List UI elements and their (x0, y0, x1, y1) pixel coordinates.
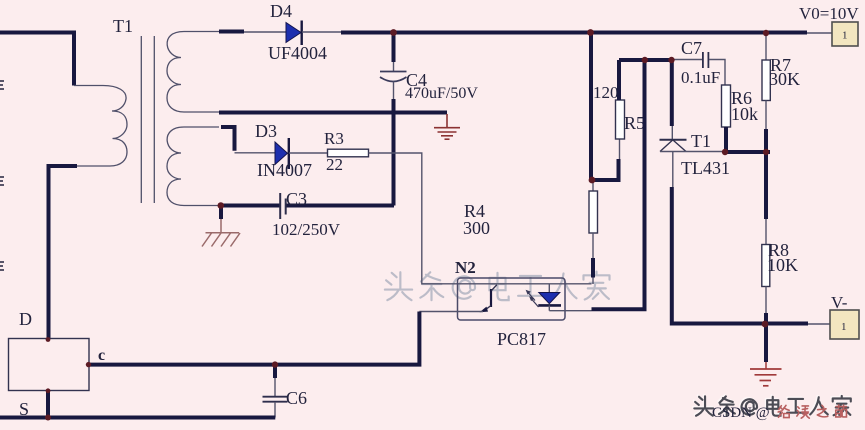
wire: S pin to bottom rail (46, 391, 50, 420)
capacitor C4 (380, 33, 478, 103)
node: rail junction R5/R4 column (587, 29, 594, 36)
svg-text:UF4004: UF4004 (268, 43, 327, 63)
node: S pin box (46, 388, 51, 393)
edge partial label top-left (0, 81, 4, 89)
wire: R3 right down to opto feed (369, 153, 592, 284)
svg-text:TL431: TL431 (681, 158, 730, 178)
node: D pin (46, 337, 51, 342)
svg-text:1: 1 (842, 30, 848, 42)
terminal V0 (799, 4, 859, 46)
svg-text:30K: 30K (769, 69, 800, 89)
watermark center 头条@电工人家 (385, 272, 610, 301)
svg-text:R3: R3 (324, 129, 344, 148)
transformer T1 core (141, 36, 154, 203)
TL431 T1 (660, 60, 731, 187)
edge partial label lower-left (0, 262, 4, 270)
wire: LED cathode column (592, 60, 645, 309)
node: C6 junction (272, 361, 278, 367)
wire: TL431 anode down and V- rail (672, 187, 808, 324)
chassis ground under C3 (202, 207, 240, 247)
svg-text:D3: D3 (255, 121, 277, 141)
wire: input top to primary (0, 33, 74, 86)
svg-text:300: 300 (463, 218, 490, 238)
svg-text:10k: 10k (731, 104, 758, 124)
svg-text:V0=10V: V0=10V (799, 4, 859, 23)
transformer T1 primary winding (74, 86, 127, 167)
svg-text:IN4007: IN4007 (257, 160, 312, 180)
svg-text:22: 22 (326, 155, 343, 174)
resistor R8 (762, 152, 798, 324)
watermark red CSDN @络溪之葩 (712, 405, 846, 421)
wire: to D4 anode (244, 31, 286, 33)
wire: C4 down to C3 level (392, 99, 396, 206)
svg-text:10K: 10K (767, 255, 798, 275)
resistor R5 (593, 83, 645, 139)
wire: bottom rail (0, 416, 275, 420)
node: ref junction R7/R8 (763, 149, 769, 155)
resistor R3 (324, 129, 369, 174)
svg-text:R5: R5 (624, 113, 645, 133)
diode D4 (268, 1, 327, 63)
edge partial label mid-left (0, 177, 4, 185)
svg-text:1: 1 (841, 321, 847, 333)
wire: rail to V0 terminal (807, 32, 832, 34)
phototransistor of N2 (490, 289, 492, 307)
capacitor C7 (672, 38, 726, 87)
resistor R6 (722, 85, 759, 152)
capacitor C3 (221, 189, 394, 239)
wire: LED cathode out (549, 310, 591, 312)
wire: winding2 top to D3 (221, 127, 235, 151)
diode D3 (255, 121, 312, 180)
ground under V- rail (750, 324, 782, 386)
wire: D4 cathode to rail (302, 31, 341, 33)
node: V- junction (762, 321, 769, 328)
svg-text:0.1uF: 0.1uF (681, 68, 720, 87)
svg-text:T1: T1 (691, 131, 711, 151)
svg-text:T1: T1 (113, 16, 133, 36)
wire: winding1 top thick segment (219, 30, 244, 34)
ground under C4 (434, 114, 460, 139)
svg-text:120: 120 (593, 83, 619, 102)
capacitor C6 (263, 365, 308, 418)
node: C3 junction (218, 202, 225, 209)
optocoupler N2 PC817 (455, 258, 565, 349)
wire: rail down to R4/R5 junction (589, 33, 593, 181)
switching block D/c/S (9, 309, 106, 419)
wire: junction to R5 bottom (590, 159, 619, 180)
svg-text:D: D (19, 309, 32, 329)
svg-text:V-: V- (831, 293, 848, 312)
transformer T1 secondary winding 2 (167, 127, 219, 206)
node: ref junction R6 (722, 149, 728, 155)
wire: R5 top to cathode rail (617, 60, 621, 100)
node: cathode rail / TL431 column (668, 57, 674, 63)
emission arrows of N2 (528, 293, 539, 308)
svg-text:N2: N2 (455, 258, 476, 277)
svg-text:CSDN @: CSDN @ (712, 405, 770, 421)
wire: primary bottom to drain (49, 166, 78, 339)
wire: winding1 bottom return (219, 111, 447, 115)
wire: to V- terminal (808, 323, 830, 325)
wire: V0 top rail (341, 31, 807, 35)
svg-text:c: c (98, 347, 105, 364)
svg-text:PC817: PC817 (497, 329, 546, 349)
svg-text:C6: C6 (286, 388, 307, 408)
node: cathode rail / LED column (642, 57, 648, 63)
resistor R4 (463, 180, 598, 284)
svg-text:102/250V: 102/250V (272, 220, 341, 239)
wire: D3 cathode to R3 (289, 152, 328, 154)
junction dots layer (45, 29, 769, 420)
terminal V- (830, 293, 859, 339)
wire: ref rail to R7/R8 (725, 150, 770, 154)
node: c pin (86, 362, 91, 367)
resistor R7 (762, 33, 800, 152)
svg-text:D4: D4 (270, 1, 292, 21)
svg-text:C7: C7 (681, 38, 702, 58)
node: rail junction C4 (390, 29, 397, 36)
node: rail junction R7 (763, 30, 769, 36)
LED of N2 (548, 284, 550, 292)
wire: emitter out (419, 311, 483, 313)
node: S junction (45, 415, 51, 421)
wire: emitter to c pin (89, 312, 419, 365)
svg-text:C3: C3 (286, 189, 307, 209)
transformer T1 secondary winding 1 (167, 32, 220, 113)
node: R4/R5 junction (589, 177, 596, 184)
svg-text:470uF/50V: 470uF/50V (405, 85, 478, 102)
watermark bottom-right 头条@电工人家 (693, 395, 849, 415)
wire: TL431 cathode rail (619, 58, 672, 62)
